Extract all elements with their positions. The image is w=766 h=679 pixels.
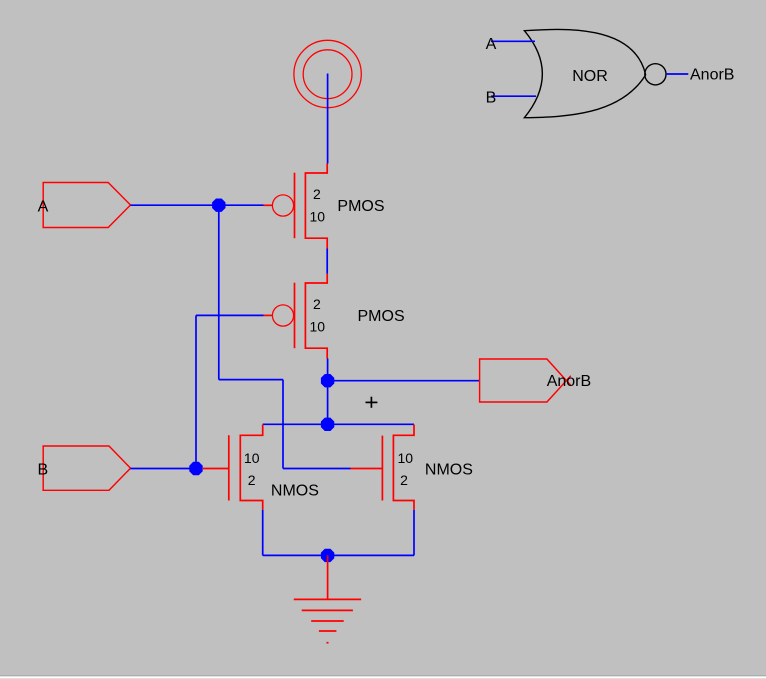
svg-text:PMOS: PMOS <box>337 198 384 215</box>
plus mark output node <box>366 397 378 408</box>
wire NMOS source rail <box>263 554 414 556</box>
svg-text:2: 2 <box>248 472 256 488</box>
svg-text:AnorB: AnorB <box>547 373 591 390</box>
ground <box>294 555 361 642</box>
svg-text:2: 2 <box>313 296 321 312</box>
wire NOR input A <box>491 40 535 42</box>
svg-text:NMOS: NMOS <box>425 462 473 479</box>
wire node A to NMOS2 gate <box>283 468 351 470</box>
svg-text:B: B <box>486 89 497 106</box>
svg-text:10: 10 <box>398 450 414 466</box>
gate NOR output bubble <box>645 64 666 85</box>
svg-text:NMOS: NMOS <box>271 483 319 500</box>
wire NOR input B <box>491 95 536 97</box>
wire NMOS2 source down <box>413 510 415 556</box>
junction output node <box>321 374 334 387</box>
wire NOR output <box>666 73 688 75</box>
svg-text:2: 2 <box>313 186 321 202</box>
svg-text:PMOS: PMOS <box>358 308 405 325</box>
wire PMOS2 drain to output node <box>327 359 329 381</box>
wire node A corner right <box>219 379 283 381</box>
junction node A <box>212 199 225 212</box>
pin A input <box>43 183 130 228</box>
wire A pin to PMOS1 gate <box>131 204 264 206</box>
svg-text:B: B <box>37 461 48 478</box>
gate NOR U1 body <box>524 29 645 117</box>
svg-text:10: 10 <box>244 450 260 466</box>
transistor NMOS2 <box>351 425 415 510</box>
svg-text:AnorB: AnorB <box>690 67 734 84</box>
wire PMOS1 drain to PMOS2 source <box>326 249 328 274</box>
wire node B to PMOS2 gate <box>196 314 264 316</box>
transistor PMOS2 <box>264 274 328 359</box>
pin B input <box>43 446 130 490</box>
wire node A down <box>218 205 220 379</box>
junction ground node <box>321 549 334 562</box>
transistor PMOS1 <box>264 164 328 249</box>
pin AnorB output <box>480 359 567 402</box>
wire NMOS drain rail <box>263 423 414 425</box>
svg-text:10: 10 <box>310 318 326 334</box>
svg-text:2: 2 <box>400 472 408 488</box>
svg-text:NOR: NOR <box>572 68 608 85</box>
svg-text:A: A <box>38 199 49 216</box>
transistor NMOS1 <box>203 425 263 510</box>
power VDD symbol <box>294 40 361 107</box>
junction node B <box>189 462 202 475</box>
wire node A down to NMOS2 gate level <box>282 380 284 469</box>
wire output node to AnorB pin <box>328 380 480 382</box>
wire VDD to PMOS1 source <box>327 74 329 164</box>
pin AnorB tip marker <box>566 376 570 386</box>
svg-text:A: A <box>486 36 497 53</box>
wire output node down to NMOS drain rail <box>327 381 329 425</box>
wire B pin to node B <box>131 468 197 470</box>
wire node B up to PMOS2 gate level <box>195 315 197 468</box>
wire NMOS1 source down <box>262 510 264 556</box>
junction NMOS drain rail <box>321 418 334 431</box>
svg-text:10: 10 <box>310 208 326 224</box>
status bar groove <box>0 675 766 679</box>
